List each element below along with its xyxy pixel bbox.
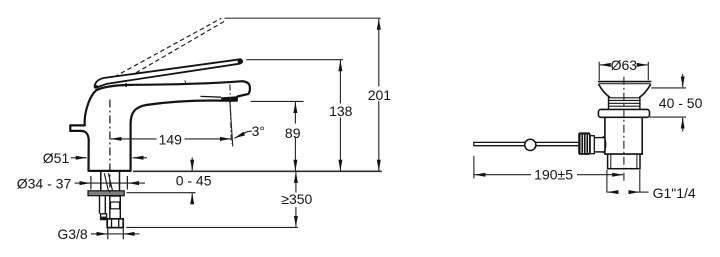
svg-text:149: 149	[159, 131, 183, 147]
svg-text:Ø63: Ø63	[611, 57, 638, 73]
svg-text:≥350: ≥350	[281, 191, 312, 207]
svg-text:201: 201	[368, 87, 392, 103]
svg-text:G3/8: G3/8	[57, 226, 88, 242]
svg-text:190±5: 190±5	[534, 166, 573, 182]
svg-text:89: 89	[285, 125, 301, 141]
svg-text:138: 138	[329, 103, 353, 119]
svg-text:3°: 3°	[252, 123, 265, 139]
svg-text:G1"1/4: G1"1/4	[653, 185, 696, 201]
svg-text:0 - 45: 0 - 45	[176, 173, 212, 189]
svg-text:Ø34 - 37: Ø34 - 37	[17, 175, 72, 191]
svg-text:Ø51: Ø51	[43, 150, 70, 166]
svg-text:40 - 50: 40 - 50	[659, 95, 703, 111]
